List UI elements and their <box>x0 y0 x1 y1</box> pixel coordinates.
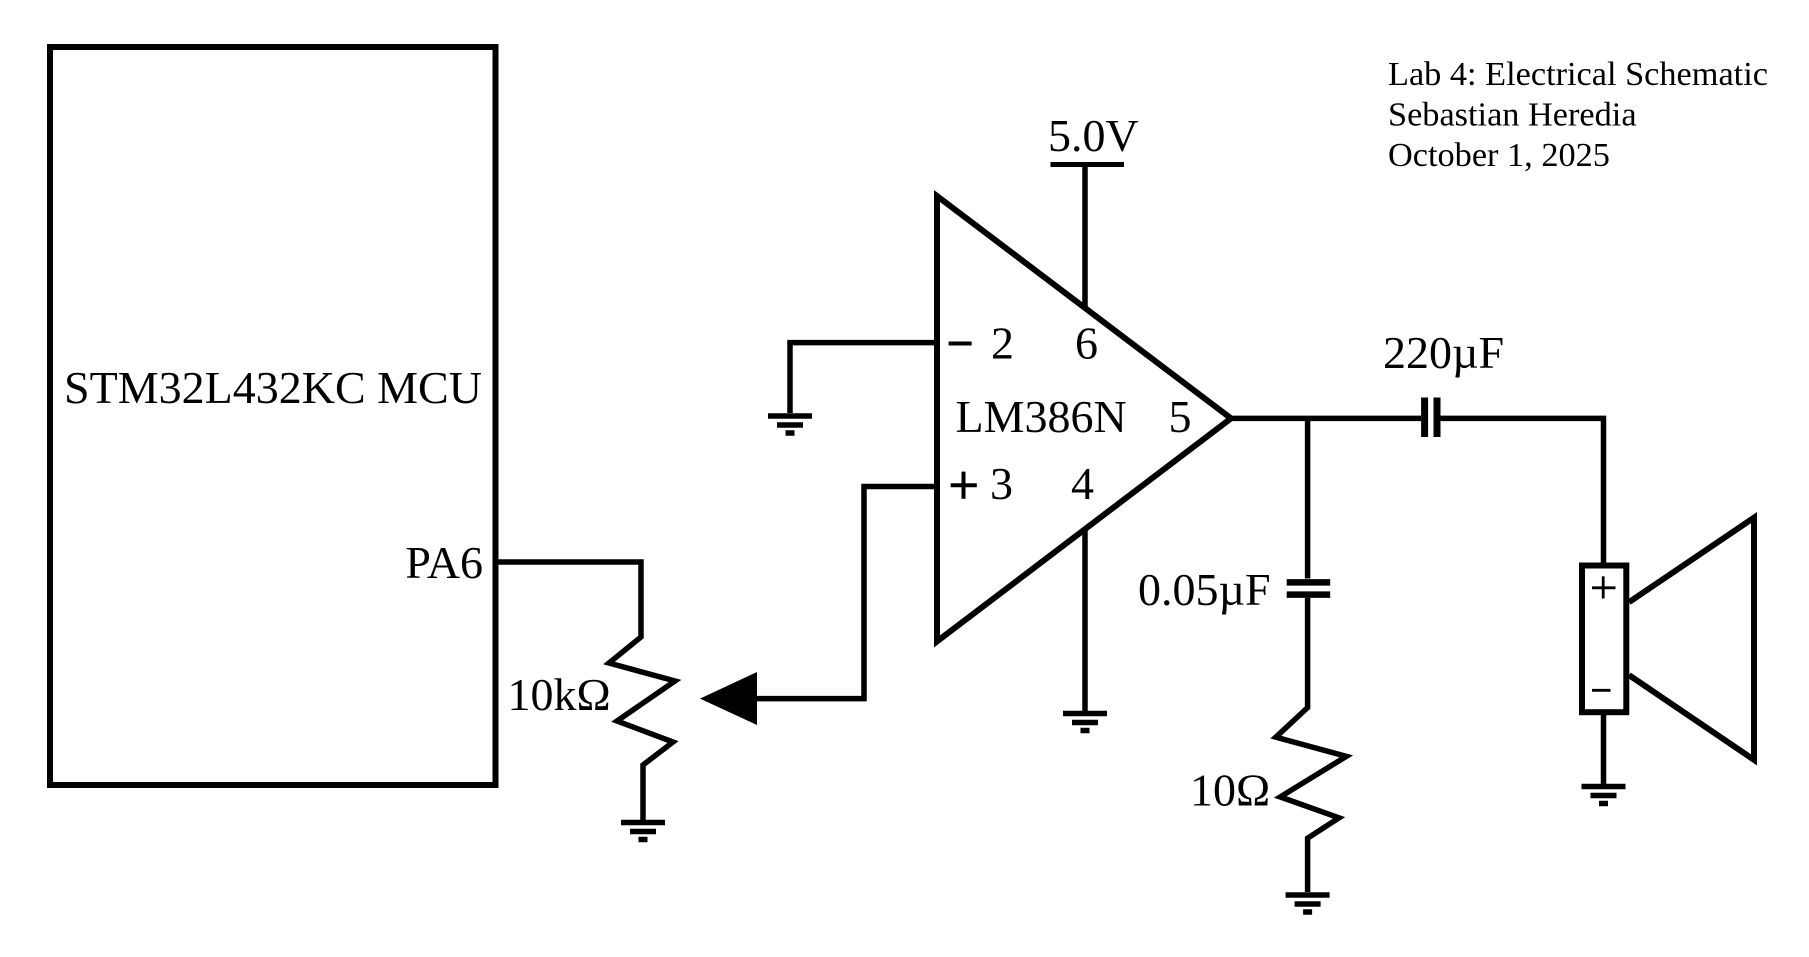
svg-text:2: 2 <box>991 318 1014 369</box>
svg-text:10Ω: 10Ω <box>1190 765 1270 816</box>
svg-text:3: 3 <box>990 458 1013 509</box>
svg-text:STM32L432KC MCU: STM32L432KC MCU <box>64 362 482 413</box>
svg-text:5: 5 <box>1169 391 1192 442</box>
svg-text:PA6: PA6 <box>405 537 483 588</box>
svg-text:5.0V: 5.0V <box>1048 110 1139 161</box>
svg-text:LM386N: LM386N <box>956 391 1127 442</box>
svg-text:10kΩ: 10kΩ <box>508 669 611 720</box>
svg-text:220µF: 220µF <box>1383 327 1504 378</box>
svg-text:6: 6 <box>1075 318 1098 369</box>
svg-text:4: 4 <box>1071 458 1094 509</box>
svg-text:0.05µF: 0.05µF <box>1138 564 1271 615</box>
